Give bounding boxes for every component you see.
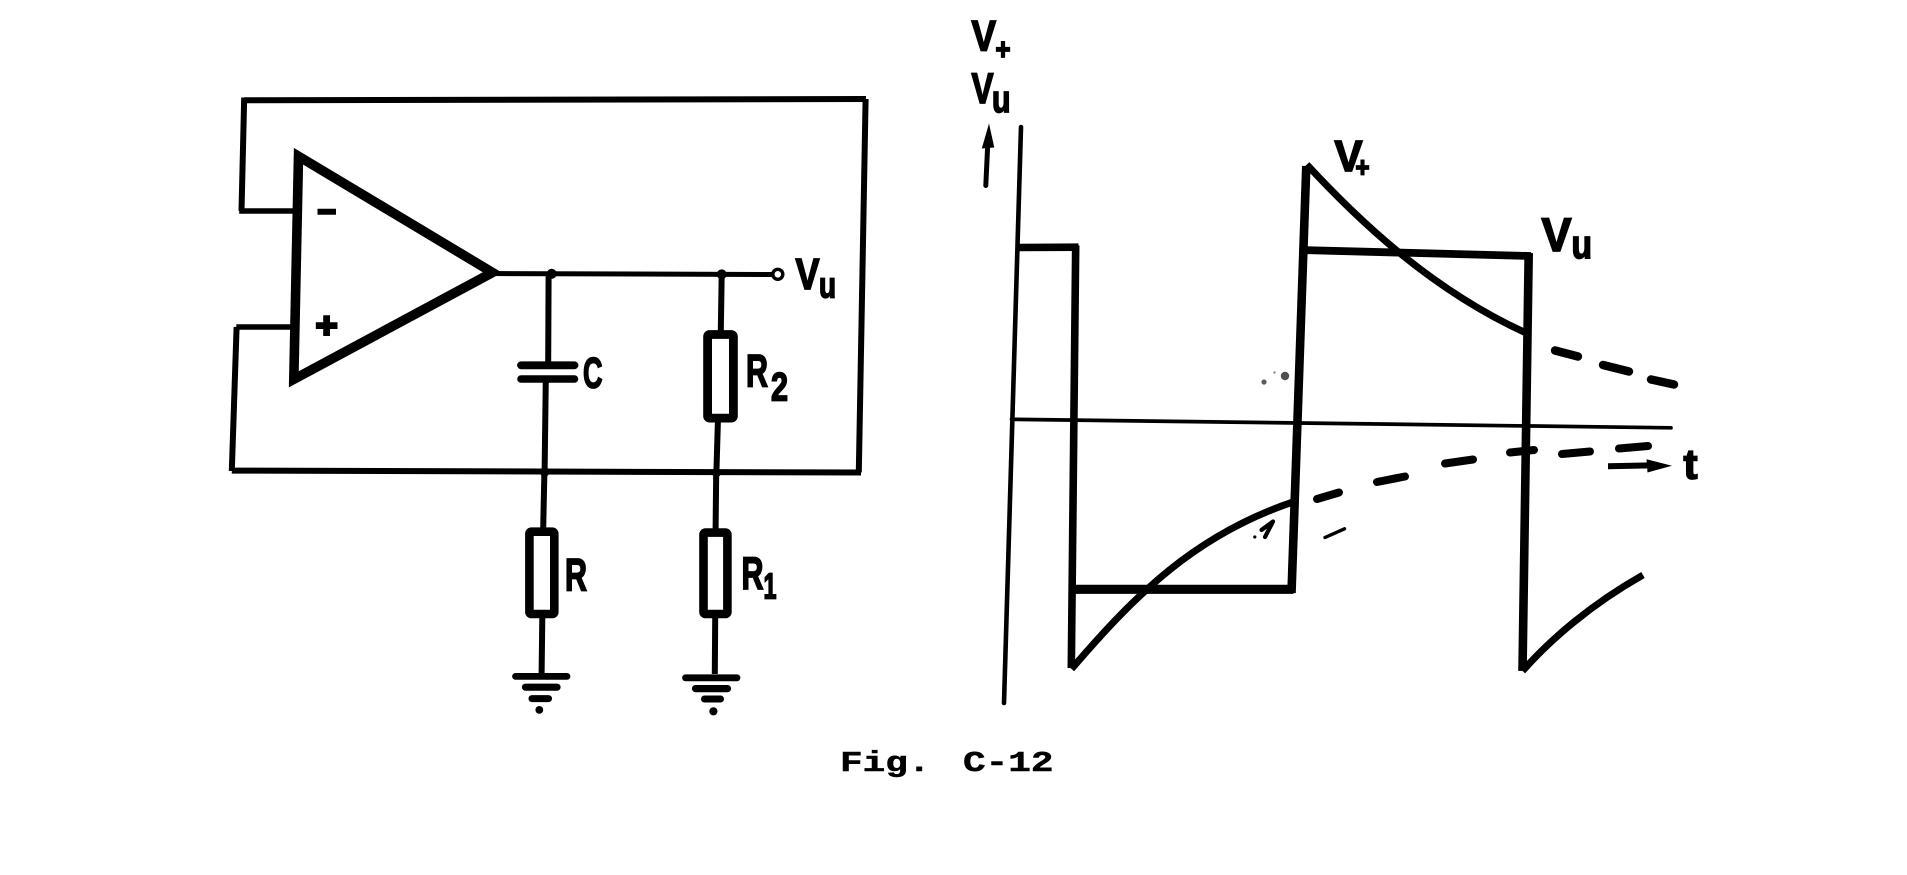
svg-text:V: V bbox=[972, 65, 994, 113]
wire: output node down to resistor R2 bbox=[718, 274, 725, 331]
waveform Vu: low segment bbox=[1070, 585, 1294, 594]
waveform Vu: first falling edge bbox=[1071, 246, 1075, 669]
node: output junction to R2 bbox=[717, 269, 727, 279]
waveform V+: rising exponential (second period) bbox=[1523, 575, 1644, 671]
waveform Vu: rising edge to V+ peak bbox=[1292, 166, 1307, 593]
waveform Vu: second high segment bbox=[1301, 250, 1532, 256]
wire: resistor R1 to ground bbox=[712, 617, 718, 674]
wire: junction down to resistor R bbox=[543, 472, 544, 528]
waveform V+: dashed decaying continuation bbox=[1555, 351, 1674, 385]
arrowhead on rising exponential bbox=[1262, 522, 1274, 538]
svg-text:C-12: C-12 bbox=[963, 748, 1053, 781]
wire: resistor R to ground bbox=[539, 617, 546, 674]
wire: inverting input wire bbox=[239, 208, 297, 214]
caption Fig. C-12 bbox=[840, 748, 930, 781]
axis up-arrow bbox=[982, 124, 995, 186]
svg-text:R: R bbox=[565, 550, 587, 601]
op-amp minus pin mark bbox=[318, 209, 337, 215]
wire: top feedback rail bbox=[244, 99, 866, 100]
wire: bottom rail bbox=[232, 471, 861, 473]
small thin dash below dashed curve bbox=[1325, 529, 1345, 538]
x-axis (t axis) bbox=[1012, 419, 1672, 428]
resistor R bbox=[529, 532, 554, 614]
svg-text:u: u bbox=[819, 265, 836, 306]
svg-text:2: 2 bbox=[771, 366, 788, 410]
waveform V+: decaying exponential from peak bbox=[1307, 165, 1526, 334]
svg-text:V: V bbox=[972, 12, 997, 60]
waveform: dashed rising continuation (below axis) bbox=[1317, 446, 1648, 499]
svg-text:+: + bbox=[1356, 152, 1370, 183]
waveform Vu: first high segment bbox=[1018, 243, 1079, 251]
op-amp bbox=[294, 156, 493, 379]
wire: top-left stub (to inverting input) bbox=[242, 98, 245, 211]
wire: output node down to capacitor bbox=[545, 274, 551, 362]
ground (under R) bbox=[516, 676, 568, 713]
svg-text:V: V bbox=[1542, 208, 1573, 261]
scan specks bbox=[1281, 372, 1289, 380]
wire: non-inverting input wire bbox=[236, 324, 295, 330]
wire: R2 to bottom-rail junction bbox=[716, 418, 718, 472]
speck near arrowhead bbox=[1253, 535, 1256, 538]
waveform Vu: second falling edge bbox=[1523, 253, 1529, 671]
svg-text:C: C bbox=[583, 350, 603, 398]
wire: capacitor to bottom-rail junction bbox=[545, 379, 546, 472]
ground (under R1) bbox=[686, 678, 738, 716]
resistor R2 bbox=[708, 335, 734, 419]
svg-text:R: R bbox=[746, 345, 768, 396]
node: output junction to C bbox=[547, 269, 557, 279]
svg-text:1: 1 bbox=[764, 566, 777, 607]
wire: output wire to Vu terminal bbox=[490, 274, 772, 275]
y-axis bbox=[1004, 127, 1021, 703]
resistor R1 bbox=[704, 533, 728, 614]
svg-text:t: t bbox=[1684, 441, 1698, 488]
svg-text:V: V bbox=[796, 250, 821, 299]
svg-text:u: u bbox=[992, 79, 1011, 121]
waveform V+: rising exponential (first period) bbox=[1072, 502, 1294, 669]
wire: bottom-left stub (from + input to bottom rail) bbox=[232, 327, 237, 471]
svg-text:u: u bbox=[1572, 223, 1593, 267]
wire: junction down to resistor R1 bbox=[713, 472, 720, 529]
dashed t-axis arrow bbox=[1608, 459, 1672, 472]
svg-text:+: + bbox=[996, 33, 1011, 66]
node: C / R junction on bottom rail bbox=[540, 468, 549, 477]
svg-text:Fig.: Fig. bbox=[840, 748, 930, 781]
svg-text:R: R bbox=[742, 548, 764, 599]
wire: right edge of feedback loop bbox=[859, 99, 866, 472]
capacitor C bbox=[521, 365, 575, 379]
op-amp plus pin mark bbox=[316, 315, 338, 336]
terminal Vu (open circle) bbox=[773, 269, 783, 279]
node: R2 / R1 junction on bottom rail bbox=[712, 468, 721, 477]
